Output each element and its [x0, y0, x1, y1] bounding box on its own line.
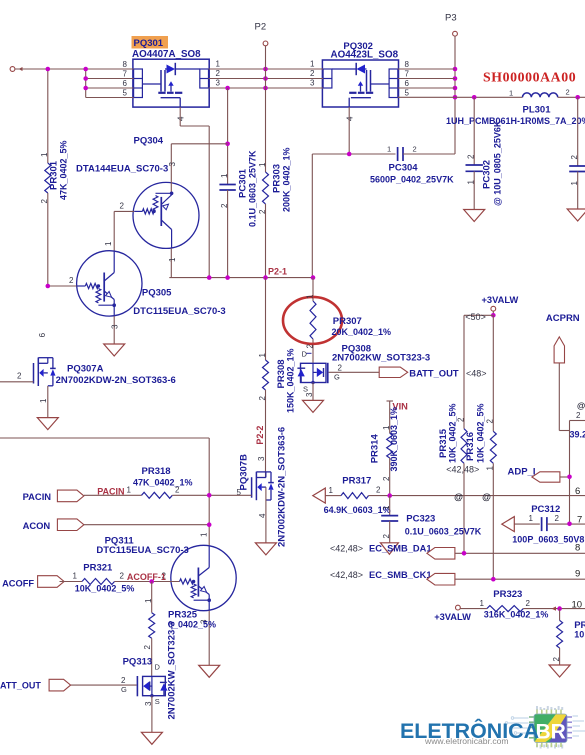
svg-text:2N7002KDW-2N_SOT363-6: 2N7002KDW-2N_SOT363-6 — [276, 427, 287, 547]
svg-text:D: D — [155, 663, 161, 672]
svg-text:1: 1 — [387, 145, 391, 154]
svg-text:2: 2 — [566, 88, 570, 97]
svg-text:P2-1: P2-1 — [268, 267, 287, 277]
svg-text:<42,48>: <42,48> — [330, 544, 363, 554]
svg-text:10: 10 — [574, 630, 584, 640]
svg-text:PACIN: PACIN — [97, 487, 124, 497]
svg-text:2: 2 — [143, 645, 152, 650]
svg-text:10K_0402_5%: 10K_0402_5% — [447, 403, 457, 463]
svg-text:20K_0402_1%: 20K_0402_1% — [332, 327, 392, 337]
svg-text:2: 2 — [552, 657, 561, 662]
svg-text:DTC115EUA_SC70-3: DTC115EUA_SC70-3 — [133, 306, 225, 317]
svg-text:1: 1 — [144, 598, 153, 603]
svg-text:@: @ — [482, 492, 491, 502]
svg-text:5: 5 — [123, 89, 128, 98]
svg-text:PR318: PR318 — [142, 466, 171, 477]
svg-text:1: 1 — [570, 181, 579, 186]
svg-text:1: 1 — [73, 572, 78, 581]
svg-text:2: 2 — [413, 145, 417, 154]
svg-text:ACOFF-1: ACOFF-1 — [127, 572, 166, 582]
svg-text:316K_0402_1%: 316K_0402_1% — [484, 610, 549, 620]
svg-text:2: 2 — [120, 572, 125, 581]
svg-text:1UH_PCMB061H-1R0MS_7A_20%: 1UH_PCMB061H-1R0MS_7A_20% — [446, 116, 585, 126]
svg-text:SH00000AA00: SH00000AA00 — [483, 70, 576, 85]
svg-text:+3VALW: +3VALW — [434, 612, 471, 622]
svg-text:PR317: PR317 — [342, 476, 371, 487]
svg-text:AO4423L_SO8: AO4423L_SO8 — [331, 49, 399, 60]
svg-text:10K_0402_5%: 10K_0402_5% — [75, 583, 135, 593]
svg-text:6: 6 — [38, 332, 47, 337]
svg-text:2: 2 — [376, 486, 381, 495]
svg-text:2: 2 — [305, 344, 314, 349]
svg-text:6: 6 — [575, 486, 580, 497]
svg-text:3: 3 — [305, 392, 314, 397]
svg-text:8: 8 — [575, 543, 580, 554]
svg-text:0.1U_0603_25V7K: 0.1U_0603_25V7K — [248, 150, 258, 227]
svg-text:PR314: PR314 — [369, 434, 380, 464]
svg-text:6: 6 — [405, 79, 410, 88]
svg-text:G: G — [334, 372, 340, 381]
svg-text:PC302: PC302 — [482, 160, 493, 189]
svg-text:2: 2 — [258, 396, 267, 401]
svg-text:1: 1 — [220, 173, 229, 178]
svg-text:2: 2 — [382, 534, 391, 539]
svg-text:8: 8 — [405, 60, 410, 69]
svg-text:BR: BR — [536, 721, 566, 744]
svg-text:2: 2 — [486, 419, 495, 424]
svg-text:7: 7 — [577, 515, 582, 526]
svg-text:PQ307A: PQ307A — [67, 364, 104, 375]
svg-text:100P_0603_50V8: 100P_0603_50V8 — [512, 534, 584, 544]
svg-text:1: 1 — [382, 505, 391, 510]
svg-text:1: 1 — [310, 60, 315, 69]
svg-text:4: 4 — [346, 116, 355, 121]
svg-text:DTC115EUA_SC70-3: DTC115EUA_SC70-3 — [96, 545, 188, 556]
svg-text:PC323: PC323 — [406, 514, 435, 525]
svg-text:1: 1 — [509, 88, 513, 97]
svg-text:<50>: <50> — [465, 312, 486, 322]
svg-text:1: 1 — [467, 180, 476, 185]
svg-text:BATT_OUT: BATT_OUT — [409, 367, 459, 378]
svg-text:6: 6 — [123, 79, 128, 88]
svg-text:www.eletronicabr.com: www.eletronicabr.com — [424, 736, 509, 746]
svg-text:1: 1 — [127, 486, 132, 495]
svg-text:10K_0402_5%: 10K_0402_5% — [475, 403, 485, 463]
svg-text:2: 2 — [220, 203, 229, 208]
svg-text:2: 2 — [310, 69, 315, 78]
svg-text:3: 3 — [144, 701, 153, 706]
svg-text:@ 10U_0805_25V6K: @ 10U_0805_25V6K — [493, 120, 503, 206]
svg-text:P2: P2 — [255, 22, 267, 33]
svg-text:4: 4 — [177, 116, 186, 121]
svg-text:2: 2 — [570, 155, 579, 160]
svg-text:PC304: PC304 — [389, 163, 419, 174]
svg-text:EC_SMB_CK1: EC_SMB_CK1 — [369, 570, 432, 580]
svg-text:1: 1 — [480, 599, 485, 608]
svg-text:2: 2 — [382, 476, 391, 481]
svg-text:2: 2 — [69, 276, 74, 285]
svg-text:1: 1 — [529, 514, 534, 523]
svg-text:150K_0402_1%: 150K_0402_1% — [286, 348, 296, 413]
svg-text:PQ304: PQ304 — [134, 135, 164, 146]
svg-text:PQ301: PQ301 — [134, 38, 164, 49]
svg-text:2: 2 — [576, 411, 581, 420]
svg-text:<42,48>: <42,48> — [446, 465, 479, 475]
svg-text:ADP_I: ADP_I — [508, 466, 536, 477]
svg-text:S: S — [155, 697, 160, 706]
svg-text:PR323: PR323 — [493, 589, 522, 600]
svg-text:200K_0402_1%: 200K_0402_1% — [282, 147, 292, 212]
svg-text:PQ307B: PQ307B — [239, 454, 250, 491]
svg-text:1: 1 — [104, 241, 113, 246]
svg-text:PL301: PL301 — [523, 105, 552, 116]
svg-text:1: 1 — [258, 353, 267, 358]
svg-text:2: 2 — [121, 676, 126, 685]
svg-text:@: @ — [454, 492, 463, 502]
svg-text:9: 9 — [575, 569, 580, 580]
svg-text:3: 3 — [111, 324, 120, 329]
svg-text:G: G — [121, 685, 127, 694]
svg-text:PQ313: PQ313 — [123, 657, 153, 668]
svg-text:DTA144EUA_SC70-3: DTA144EUA_SC70-3 — [76, 164, 168, 175]
svg-text:+3VALW: +3VALW — [482, 295, 519, 305]
svg-text:1: 1 — [329, 486, 334, 495]
svg-text:ACON: ACON — [23, 520, 51, 531]
svg-text:2: 2 — [526, 599, 531, 608]
svg-text:2N7002KW_SOT323-3: 2N7002KW_SOT323-3 — [332, 353, 430, 364]
svg-text:2: 2 — [467, 154, 476, 159]
svg-text:PQ305: PQ305 — [142, 287, 172, 298]
svg-text:2N7002KDW-2N_SOT363-6: 2N7002KDW-2N_SOT363-6 — [56, 375, 176, 386]
svg-text:ACOFF: ACOFF — [2, 579, 34, 589]
svg-text:1: 1 — [216, 60, 221, 69]
svg-text:2: 2 — [120, 202, 125, 211]
svg-text:3: 3 — [168, 162, 177, 167]
svg-text:2N7002KW_SOT323-3: 2N7002KW_SOT323-3 — [166, 621, 177, 719]
svg-text:47K_0402_5%: 47K_0402_5% — [59, 140, 69, 200]
svg-text:PR321: PR321 — [83, 563, 113, 574]
svg-text:@: @ — [577, 401, 585, 411]
svg-text:PR307: PR307 — [333, 316, 362, 327]
svg-text:1: 1 — [39, 398, 48, 403]
svg-text:3: 3 — [216, 79, 221, 88]
svg-text:4: 4 — [258, 513, 267, 518]
svg-text:1: 1 — [305, 294, 314, 299]
svg-text:1: 1 — [258, 162, 267, 167]
svg-text:64.9K_0603_1%: 64.9K_0603_1% — [324, 505, 391, 515]
svg-text:AO4407A_SO8: AO4407A_SO8 — [132, 49, 201, 60]
svg-text:39.2: 39.2 — [570, 430, 585, 440]
svg-text:3: 3 — [310, 79, 315, 88]
svg-text:ACPRN: ACPRN — [546, 313, 580, 324]
svg-text:7: 7 — [405, 70, 410, 79]
svg-text:EC_SMB_DA1: EC_SMB_DA1 — [369, 544, 432, 554]
svg-text:1: 1 — [200, 532, 209, 537]
svg-text:P2-2: P2-2 — [255, 426, 265, 445]
svg-text:0.1U_0603_25V7K: 0.1U_0603_25V7K — [405, 527, 482, 537]
svg-text:7: 7 — [123, 70, 128, 79]
svg-text:2: 2 — [216, 69, 221, 78]
svg-text:10: 10 — [572, 600, 583, 611]
svg-text:1: 1 — [168, 257, 177, 262]
svg-text:<48>: <48> — [466, 369, 487, 379]
svg-text:2: 2 — [338, 363, 343, 372]
svg-text:8: 8 — [123, 60, 128, 69]
svg-text:2: 2 — [456, 417, 465, 422]
svg-text:<42,48>: <42,48> — [330, 570, 363, 580]
svg-text:3: 3 — [257, 456, 266, 461]
svg-text:S: S — [303, 385, 308, 394]
svg-text:1: 1 — [486, 466, 495, 471]
svg-text:ATT_OUT: ATT_OUT — [0, 680, 41, 690]
svg-text:PACIN: PACIN — [23, 491, 52, 502]
svg-text:5: 5 — [405, 89, 410, 98]
svg-text:2: 2 — [555, 514, 560, 523]
svg-text:P3: P3 — [445, 13, 457, 24]
svg-text:5600P_0402_25V7K: 5600P_0402_25V7K — [370, 175, 454, 185]
svg-text:2: 2 — [17, 372, 22, 381]
svg-text:1: 1 — [40, 152, 49, 157]
svg-text:47K_0402_1%: 47K_0402_1% — [133, 478, 193, 488]
svg-text:390K_0603_1%: 390K_0603_1% — [389, 407, 399, 472]
